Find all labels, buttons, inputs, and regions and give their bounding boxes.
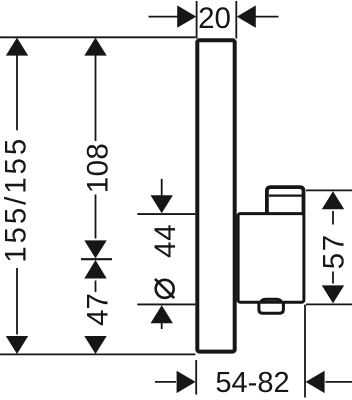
dim 20: right extension line (235, 1, 237, 39)
svg-text:57: 57 (318, 233, 351, 269)
dim 108: lower shaft (95, 195, 97, 239)
bottom reference line (0, 353, 196, 355)
dim 155/155: upper shaft (16, 55, 18, 130)
arrow 155 bottom (6, 336, 28, 354)
arrow 108 bottom (84, 240, 106, 258)
arrow 155 top (6, 38, 28, 56)
arrow 57 bottom (points down) (322, 285, 344, 303)
svg-text:44: 44 (149, 223, 182, 257)
dim 155/155: lower shaft (16, 268, 18, 335)
dim 57: top extension line (306, 189, 352, 191)
dim 44: bottom tick (137, 303, 195, 305)
arrow 20 right (237, 5, 256, 27)
arrow 44 top (points down) (151, 195, 173, 213)
dim 44: top tick (137, 213, 195, 215)
label diameter symbol (155, 279, 174, 298)
bottom tab (259, 303, 284, 313)
arrow 44 bottom (points up) (151, 305, 173, 323)
arrow 57 top (points up) (322, 191, 344, 209)
arrow 47 top (84, 260, 106, 279)
dim 47: upper shaft (95, 281, 97, 293)
dim 20: left tail (149, 16, 179, 18)
svg-text:108: 108 (81, 143, 114, 193)
handle stem (top section) (267, 187, 304, 214)
button dome (261, 299, 282, 302)
svg-text:54-82: 54-82 (215, 367, 289, 399)
stem lip line (269, 195, 303, 197)
top reference line (0, 36, 196, 38)
dim 20: left extension line (196, 1, 198, 39)
dim 20: right tail (255, 16, 279, 18)
dim 54-82: left extension line (195, 360, 197, 395)
dim 108/47 tick (81, 258, 112, 260)
dim 44: lower shaft (161, 323, 163, 330)
arrow 54-82 right (306, 371, 325, 393)
dim 44: upper shaft (161, 179, 163, 197)
svg-text:155/155: 155/155 (0, 136, 33, 263)
arrow 47 bottom (84, 336, 106, 354)
svg-text:20: 20 (198, 2, 231, 35)
dim 57: bottom extension line (306, 303, 352, 305)
dim 54-82: right tail (326, 381, 352, 383)
wall plate (side view) (197, 40, 234, 351)
svg-text:47: 47 (81, 293, 114, 326)
dim 108: upper shaft (95, 55, 97, 141)
arrow 20 left (177, 5, 196, 27)
dim 54-82: right extension line (304, 305, 306, 398)
arrow 108 top (84, 38, 106, 56)
arrow 54-82 left (177, 371, 196, 393)
dim 57: upper shaft (332, 211, 334, 225)
dim 57: lower shaft (332, 272, 334, 284)
dim 54-82: left tail (155, 381, 176, 383)
handle body (238, 214, 304, 303)
